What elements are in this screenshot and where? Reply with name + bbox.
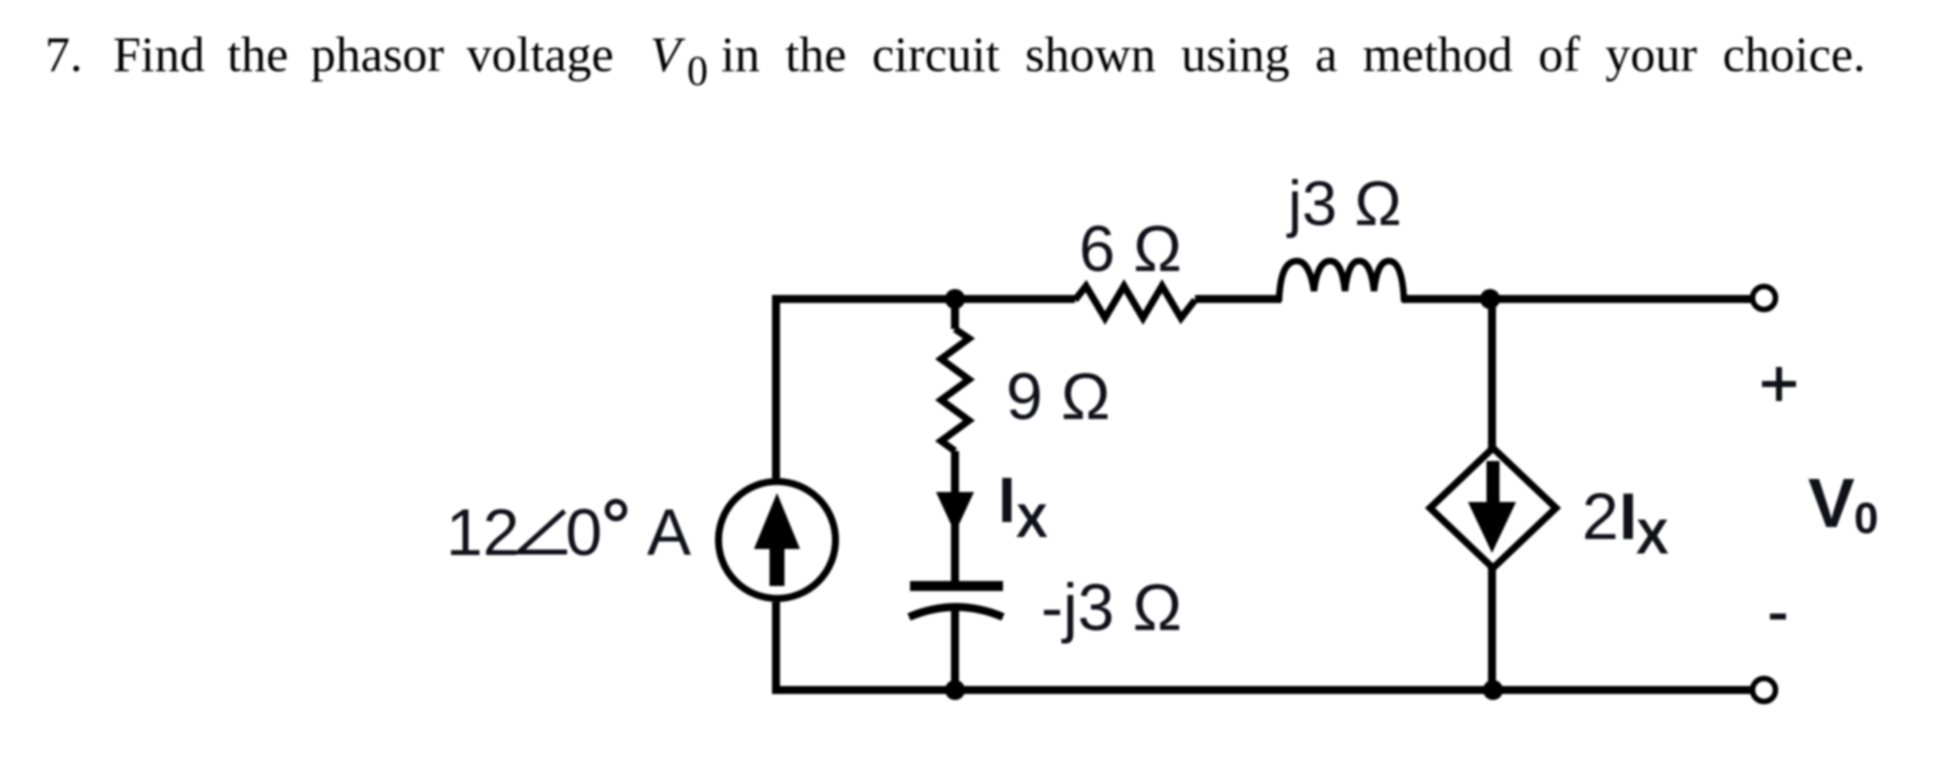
svg-text:12: 12	[446, 495, 519, 569]
current source arrow up	[754, 493, 800, 586]
resistor 6ohm zigzag	[1075, 286, 1195, 318]
inductor j3ohm coil	[1279, 261, 1404, 300]
svg-text:X: X	[1636, 511, 1669, 565]
svg-text:0: 0	[566, 495, 603, 569]
junction node dot bottom middle	[945, 680, 965, 700]
svg-text:V: V	[650, 26, 686, 82]
current source 12A circle	[719, 482, 836, 599]
capacitor -j3ohm top plate	[910, 581, 1003, 591]
svg-text:j3 Ω: j3 Ω	[1286, 169, 1402, 239]
svg-text:I: I	[998, 464, 1016, 536]
dependent source arrow down	[1468, 461, 1516, 553]
svg-text:Find the phasor voltage: Find the phasor voltage	[113, 26, 614, 82]
junction node dot top middle	[945, 289, 965, 309]
svg-text:6 Ω: 6 Ω	[1079, 212, 1182, 285]
wire middle branch below capacitor	[951, 607, 959, 690]
wire top-left segment and left vertical upper	[776, 299, 1075, 478]
terminal circle bottom right	[1753, 679, 1776, 702]
label minus sign	[1770, 614, 1786, 620]
label plus sign	[1762, 367, 1796, 401]
wire middle branch between resistor and capacitor	[951, 451, 959, 581]
svg-text:X: X	[1016, 495, 1048, 548]
capacitor -j3ohm curved plate	[909, 607, 1003, 617]
wire top middle between resistor and inductor	[1195, 295, 1281, 303]
svg-text:0: 0	[687, 49, 708, 95]
wire right branch upper	[1488, 299, 1496, 450]
svg-text:I: I	[1619, 479, 1637, 553]
svg-text:V: V	[1808, 464, 1855, 542]
svg-text:0: 0	[1854, 494, 1878, 543]
wire top right to terminal	[1404, 295, 1753, 303]
svg-text:A: A	[647, 495, 691, 569]
svg-text:9 Ω: 9 Ω	[1006, 359, 1110, 433]
junction node dot top right	[1480, 289, 1500, 309]
svg-text:7.: 7.	[45, 26, 83, 82]
junction node dot bottom right	[1483, 680, 1503, 700]
dependent source diamond	[1430, 448, 1556, 568]
resistor 9ohm zigzag vertical	[941, 329, 969, 451]
svg-text:-j3 Ω: -j3 Ω	[1041, 570, 1182, 644]
title text	[45, 26, 1866, 95]
wire right branch lower	[1488, 566, 1496, 690]
wire middle branch upper	[951, 299, 959, 329]
terminal circle top right	[1753, 287, 1776, 310]
svg-text:2: 2	[1582, 479, 1619, 553]
wire left vertical lower and bottom wire	[776, 602, 1753, 690]
arrow Ix on middle branch	[936, 492, 974, 533]
svg-text:in the circuit shown using a m: in the circuit shown using a method of y…	[721, 26, 1866, 82]
